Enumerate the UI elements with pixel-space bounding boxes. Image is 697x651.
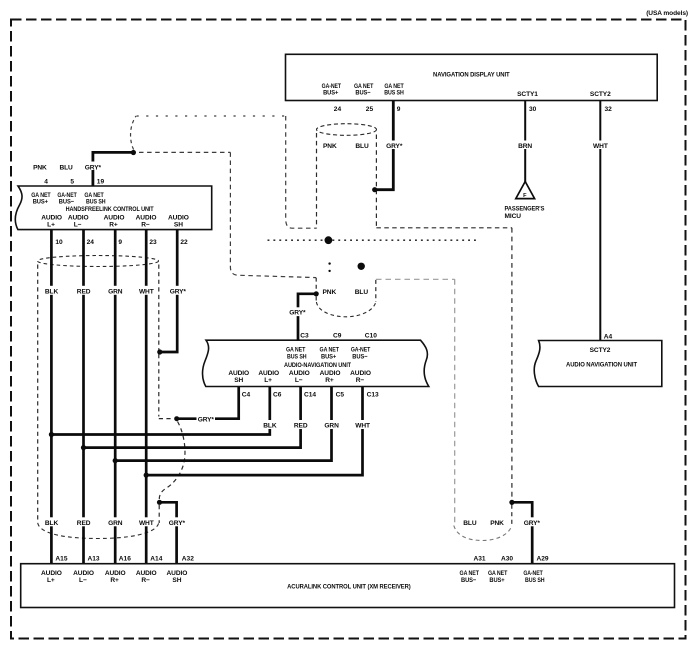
shield dashed gray: horizontal y=279.3 <box>376 278 455 280</box>
svg-text:A14: A14 <box>150 555 162 562</box>
wire GRY* from hfl pin 19 to shield <box>93 152 132 186</box>
label WHT (to C13) <box>354 420 371 430</box>
svg-text:R+: R+ <box>110 577 119 584</box>
wire GRY* from nav pin 9 to shield <box>375 101 394 190</box>
label RED (upper) <box>76 286 92 296</box>
label GRY* (to A32) <box>168 517 187 527</box>
svg-text:GRY*: GRY* <box>386 143 403 150</box>
label GRY* (shield to A29) <box>523 517 542 527</box>
svg-text:L−: L− <box>79 577 87 584</box>
shield dashed: vertical x=285.7 <box>286 116 317 228</box>
svg-text:9: 9 <box>118 239 122 246</box>
label BRN <box>517 141 533 150</box>
svg-text:BUS+: BUS+ <box>489 577 504 584</box>
svg-text:AUDIO: AUDIO <box>41 214 62 221</box>
svg-text:A16: A16 <box>119 555 131 562</box>
svg-text:C6: C6 <box>273 391 282 398</box>
label RED (to C14) <box>293 420 309 430</box>
wire WHT from nav pin 32 to audio navigation unit A4 <box>599 101 601 341</box>
svg-text:F: F <box>523 193 527 199</box>
svg-text:BUS SH: BUS SH <box>287 353 307 360</box>
svg-text:BLK: BLK <box>45 520 59 527</box>
svg-text:10: 10 <box>55 239 63 246</box>
svg-text:AUDIO: AUDIO <box>168 214 189 221</box>
svg-text:SCTY1: SCTY1 <box>517 91 538 98</box>
svg-text:WHT: WHT <box>355 423 370 430</box>
wire BRN from nav pin 30 <box>524 101 526 183</box>
svg-text:AUDIO: AUDIO <box>104 214 125 221</box>
shield dashed: vertical x=230.4 down then over to lower cylinder <box>230 152 316 277</box>
svg-text:19: 19 <box>97 179 105 186</box>
svg-text:AUDIO-NAVIGATION UNIT: AUDIO-NAVIGATION UNIT <box>284 362 351 369</box>
wire WHT (hfl pin23 to A14) <box>145 230 148 565</box>
wire RED (hfl pin24 to A13) <box>82 230 85 565</box>
label GRY* (hfl pin22 wire) <box>169 286 187 296</box>
svg-text:AUDIO: AUDIO <box>167 570 188 577</box>
svg-text:BUS SH: BUS SH <box>525 577 545 584</box>
svg-text:A32: A32 <box>182 555 194 562</box>
svg-text:NAVIGATION DISPLAY UNIT: NAVIGATION DISPLAY UNIT <box>433 72 510 79</box>
dotted continuation row y=240 <box>268 239 478 241</box>
svg-text:BUS+: BUS+ <box>323 90 338 97</box>
svg-text:GRY*: GRY* <box>170 288 187 295</box>
label GRY* (shield to C3) <box>289 307 307 316</box>
svg-text:SH: SH <box>234 377 243 384</box>
svg-text:SH: SH <box>172 577 181 584</box>
svg-text:WHT: WHT <box>593 143 608 150</box>
svg-text:BLU: BLU <box>355 143 369 150</box>
svg-text:R−: R− <box>141 221 150 228</box>
svg-text:BLK: BLK <box>263 423 277 430</box>
svg-text:AUDIO: AUDIO <box>68 214 89 221</box>
svg-text:GRY*: GRY* <box>289 310 306 317</box>
unit: HANDSFREELINK CONTROL UNIT <box>15 186 211 230</box>
junction dot shield/A29 <box>509 500 514 505</box>
svg-text:AUDIO: AUDIO <box>73 570 94 577</box>
label BLK (lower) <box>44 517 59 527</box>
crossover wire GRN to C5 <box>115 387 331 461</box>
svg-text:BUS SH: BUS SH <box>86 198 106 205</box>
shield dashed: vertical x=512 down to A29 junction <box>511 228 513 500</box>
svg-text:AUDIO: AUDIO <box>105 570 126 577</box>
svg-text:32: 32 <box>605 106 613 113</box>
svg-text:ACURALINK CONTROL UNIT (XM REC: ACURALINK CONTROL UNIT (XM RECEIVER) <box>287 583 411 590</box>
svg-text:A31: A31 <box>474 555 486 562</box>
svg-text:PNK: PNK <box>33 164 47 171</box>
svg-text:L−: L− <box>74 221 82 228</box>
svg-text:BRN: BRN <box>518 143 532 150</box>
unit: AUDIO NAVIGATION UNIT (right) <box>534 341 662 387</box>
svg-text:A15: A15 <box>55 555 67 562</box>
svg-text:A30: A30 <box>501 555 513 562</box>
label GRN (lower) <box>108 517 124 527</box>
PNK colon marks <box>328 262 330 264</box>
svg-text:GA-NET: GA-NET <box>523 570 542 577</box>
handsfreelink shielded cable cylinder <box>38 256 159 267</box>
svg-text:AUDIO: AUDIO <box>136 214 157 221</box>
svg-text:30: 30 <box>529 106 537 113</box>
svg-text:C13: C13 <box>367 391 379 398</box>
svg-text:SCTY2: SCTY2 <box>590 347 611 354</box>
crossover wire WHT to C13 <box>146 387 362 476</box>
shield dashed: top horizontal run y=116 <box>137 115 286 117</box>
svg-text:L+: L+ <box>47 221 55 228</box>
svg-text:SH: SH <box>174 221 183 228</box>
svg-text:PASSENGER'S: PASSENGER'S <box>505 205 545 212</box>
svg-text:22: 22 <box>180 239 188 246</box>
shield dashed: horizontal y=227.8 to x=512 <box>376 227 512 229</box>
svg-text:BLU: BLU <box>355 289 369 296</box>
label GRN (to C5) <box>324 420 340 430</box>
svg-text:5: 5 <box>70 179 74 186</box>
node: PNK continuation dot <box>325 236 333 244</box>
label RED (lower) <box>76 517 92 527</box>
unit: ACURALINK CONTROL UNIT (XM RECEIVER) <box>21 564 675 608</box>
label WHT (lower) <box>138 517 155 527</box>
shield dashed: curve from GRY* junction up to top run <box>131 116 136 150</box>
svg-text:C10: C10 <box>365 333 377 340</box>
svg-text:GRY*: GRY* <box>85 164 102 171</box>
svg-text:L+: L+ <box>47 577 55 584</box>
svg-text:A13: A13 <box>88 555 100 562</box>
svg-text:BUS+: BUS+ <box>33 198 48 205</box>
wire GRY* shield to C4 <box>177 387 239 419</box>
svg-text:C3: C3 <box>300 333 309 340</box>
svg-text:GA NET: GA NET <box>460 570 479 577</box>
crossover wire BLK to C6 <box>51 387 269 435</box>
svg-text:PNK: PNK <box>323 143 337 150</box>
junction dot shield/C3 <box>314 291 319 296</box>
svg-text:AUDIO: AUDIO <box>41 570 62 577</box>
shielded cable cylinder (nav display PNK/BLU pair) <box>317 124 377 136</box>
svg-text:MICU: MICU <box>505 213 522 220</box>
svg-text:A4: A4 <box>604 333 613 340</box>
junction dot shield/pin22 <box>157 349 162 354</box>
svg-text:BUS−: BUS− <box>352 353 367 360</box>
label GRN (upper) <box>108 286 124 296</box>
svg-text:C9: C9 <box>333 333 342 340</box>
svg-text:R+: R+ <box>109 221 118 228</box>
shield right side with junction taps <box>158 265 160 351</box>
svg-text:BLK: BLK <box>45 288 59 295</box>
label BLK (upper) <box>44 286 59 296</box>
svg-text:GRN: GRN <box>324 423 339 430</box>
svg-text:C14: C14 <box>304 391 316 398</box>
junction dot shield/hfl pin19 <box>131 150 136 155</box>
junction dot BLK <box>49 432 54 437</box>
svg-text:GRN: GRN <box>108 288 123 295</box>
lower-middle cylinder (PNK/BLU to C9/C10) <box>315 278 317 292</box>
svg-text:GA NET: GA NET <box>488 570 507 577</box>
svg-text:24: 24 <box>334 106 342 113</box>
svg-text:GRY*: GRY* <box>524 520 541 527</box>
wire BLK (hfl pin10 to A15) <box>50 230 53 565</box>
svg-text:BLU: BLU <box>59 164 73 171</box>
unit: NAVIGATION DISPLAY UNIT <box>286 54 658 100</box>
svg-text:RED: RED <box>294 423 308 430</box>
shield dashed: horizontal run y=152.4 from junction to x=230.4 <box>139 151 230 153</box>
svg-text:GRY*: GRY* <box>198 417 215 424</box>
svg-text:25: 25 <box>366 106 374 113</box>
svg-text:BUS−: BUS− <box>461 577 476 584</box>
svg-text:SCTY2: SCTY2 <box>590 91 611 98</box>
svg-text:RED: RED <box>77 520 91 527</box>
junction dot shield/C4 <box>174 416 179 421</box>
svg-text:PNK: PNK <box>490 520 504 527</box>
unit: AUDIO-NAVIGATION UNIT (center) <box>203 340 429 386</box>
label GRY* <box>386 141 404 150</box>
svg-text:C4: C4 <box>242 391 251 398</box>
svg-text:C5: C5 <box>336 391 345 398</box>
svg-text:L−: L− <box>295 377 303 384</box>
svg-text:GRN: GRN <box>108 520 123 527</box>
svg-text:23: 23 <box>149 239 157 246</box>
svg-text:24: 24 <box>87 239 95 246</box>
svg-text:RED: RED <box>77 288 91 295</box>
wire GRY* shield to A29 <box>512 502 532 564</box>
label GRY* <box>84 162 102 172</box>
wire GRN (hfl pin9 to A16) <box>114 230 117 565</box>
svg-text:9: 9 <box>397 106 401 113</box>
svg-text:R+: R+ <box>325 377 334 384</box>
junction dot RED <box>81 445 86 450</box>
label WHT (upper) <box>138 286 155 296</box>
wire GRY* (hfl pin22 to shield) <box>162 230 177 352</box>
junction dot GRN <box>113 458 118 463</box>
crossover wire RED to C14 <box>84 387 301 448</box>
shield dashed gray: vertical x=454.7 <box>454 279 456 524</box>
svg-text:(USA models): (USA models) <box>646 10 688 17</box>
svg-text:AUDIO: AUDIO <box>136 570 157 577</box>
wire GRY* shield to A32 <box>160 502 177 564</box>
label GRY* (shield to C4) <box>197 414 216 423</box>
svg-text:R−: R− <box>141 577 150 584</box>
svg-text:WHT: WHT <box>139 288 154 295</box>
svg-text:R−: R− <box>356 377 365 384</box>
svg-text:HANDSFREELINK CONTROL UNIT: HANDSFREELINK CONTROL UNIT <box>66 206 154 213</box>
junction dot shield/A32 <box>157 500 162 505</box>
label BLK (to C6) <box>262 420 277 430</box>
bottom-right cylinder (BLU/PNK to A31/A30) <box>511 505 513 525</box>
svg-text:BUS−: BUS− <box>59 198 74 205</box>
svg-text:BUS SH: BUS SH <box>384 90 404 97</box>
svg-text:BLU: BLU <box>463 520 477 527</box>
label WHT <box>592 141 610 150</box>
junction dot shield/nav pin9 <box>372 187 377 192</box>
junction dot WHT <box>144 473 149 478</box>
svg-text:BUS+: BUS+ <box>321 353 336 360</box>
svg-text:A29: A29 <box>537 555 549 562</box>
svg-text:WHT: WHT <box>139 520 154 527</box>
svg-text:L+: L+ <box>264 377 272 384</box>
svg-text:GRY*: GRY* <box>169 520 186 527</box>
svg-text:4: 4 <box>44 179 48 186</box>
node: BLU continuation dot <box>358 263 365 270</box>
svg-text:BUS−: BUS− <box>355 90 370 97</box>
connector F: PASSENGER'S MICU <box>505 182 545 220</box>
wire GRY* shield to C3 <box>298 294 315 340</box>
svg-text:PNK: PNK <box>322 289 336 296</box>
svg-text:AUDIO NAVIGATION UNIT: AUDIO NAVIGATION UNIT <box>566 361 637 368</box>
